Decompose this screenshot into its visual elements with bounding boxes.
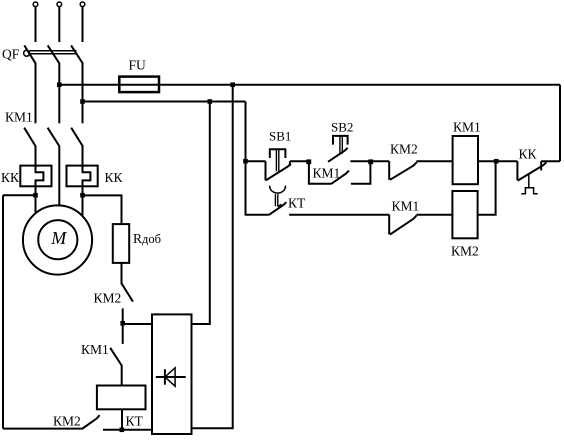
svg-text:КК: КК bbox=[105, 170, 124, 185]
svg-text:SB2: SB2 bbox=[331, 120, 353, 135]
contactor KM2 bottom contact bbox=[82, 415, 100, 429]
node motor terminal C bbox=[80, 193, 85, 198]
wire rectifier AC drop 1 bbox=[192, 102, 210, 325]
svg-text:КК: КК bbox=[519, 147, 538, 162]
contact KK thermal (NC) bbox=[517, 161, 546, 194]
motor M rotor circle bbox=[38, 220, 77, 259]
svg-text:КМ1: КМ1 bbox=[392, 199, 420, 214]
wire control neutral horizontal bbox=[83, 101, 246, 103]
wire to left edge bbox=[3, 194, 36, 196]
node motor terminal A bbox=[33, 193, 38, 198]
contact KM1 self-holding bbox=[309, 161, 371, 184]
thermal overload KK heater 1 bbox=[20, 166, 51, 187]
wire row2 to KM2 coil bbox=[416, 214, 452, 216]
resistor Rdob bbox=[113, 224, 129, 263]
coil KM2 bbox=[452, 191, 477, 238]
svg-text:КК: КК bbox=[1, 170, 20, 185]
wire KM2 interlock to KM1 coil bbox=[416, 160, 452, 162]
node fuse tap on phase B bbox=[57, 82, 62, 87]
wire phase B lower bbox=[58, 146, 60, 205]
wire SB2 right bbox=[350, 160, 389, 162]
node rectifier DC minus bbox=[120, 428, 125, 433]
node SB2 branch left bbox=[306, 159, 311, 164]
thermal overload KK heater 2 bbox=[67, 166, 98, 187]
svg-text:КМ1: КМ1 bbox=[5, 110, 33, 125]
wire phase C lower bbox=[82, 146, 84, 165]
svg-text:КМ1: КМ1 bbox=[313, 166, 341, 181]
contactor KM2 brake contact bbox=[122, 284, 133, 302]
contactor KM1 aux contact (brake circuit) bbox=[110, 348, 122, 366]
wire phase B mid bbox=[58, 64, 60, 124]
terminal L3 bbox=[80, 2, 85, 7]
svg-text:M: M bbox=[50, 228, 67, 248]
wire row2 middle bbox=[289, 214, 389, 216]
svg-text:КМ2: КМ2 bbox=[390, 142, 418, 157]
contactor KM1 main contact pole 1 bbox=[24, 128, 36, 147]
svg-text:КТ: КТ bbox=[288, 196, 306, 211]
svg-text:КМ1: КМ1 bbox=[81, 342, 109, 357]
contact KM2 interlock (NC) bbox=[389, 161, 417, 180]
svg-text:SB1: SB1 bbox=[269, 129, 291, 144]
contact KT time-delay bbox=[269, 186, 286, 215]
wire junction to rectifier left top bbox=[123, 323, 152, 325]
wire phase C mid bbox=[82, 64, 84, 124]
wire brake contact to junction bbox=[122, 308, 124, 344]
wire phase B upper bbox=[58, 7, 60, 42]
terminal L2 bbox=[57, 2, 62, 7]
wire to fuse bbox=[59, 84, 560, 86]
node rectifier AC tap 1 bbox=[208, 99, 213, 104]
node rectifier AC tap 2 bbox=[230, 82, 235, 87]
node coil output bbox=[494, 159, 499, 164]
node control rail / row1 bbox=[243, 159, 248, 164]
wire phase A upper bbox=[35, 7, 37, 42]
svg-text:КМ2: КМ2 bbox=[94, 291, 122, 306]
wire left edge vertical bbox=[2, 195, 4, 428]
wire left control rail bbox=[245, 102, 247, 216]
wire phase A lower bbox=[35, 146, 37, 165]
wire heater2 to motor bbox=[82, 186, 84, 216]
wire rectifier AC drop 2 bbox=[192, 85, 233, 429]
circuit breaker QF bbox=[24, 45, 83, 63]
rectifier block bbox=[152, 314, 192, 434]
wire KM1 contact to KT coil bbox=[121, 366, 123, 386]
node SB2 branch right bbox=[368, 159, 373, 164]
motor M stator circle bbox=[23, 205, 92, 274]
node rectifier DC plus bbox=[120, 321, 125, 326]
wire bottom node to rectifier left bottom bbox=[103, 429, 152, 431]
wire right edge to KK contact bbox=[541, 160, 560, 162]
contactor KM1 main contact pole 3 bbox=[71, 128, 83, 147]
wire motor C to resistor bbox=[83, 195, 122, 224]
wire KM1 coil to node bbox=[478, 160, 517, 162]
svg-text:QF: QF bbox=[2, 46, 20, 61]
wire bottom left bbox=[3, 428, 82, 430]
pushbutton SB1 (NC stop) bbox=[266, 149, 291, 180]
fuse FU bbox=[119, 77, 159, 93]
pushbutton SB2 (NO start) bbox=[328, 136, 348, 162]
wire phase C upper bbox=[82, 7, 84, 42]
svg-text:FU: FU bbox=[129, 58, 147, 73]
contact KM1 aux (row2) bbox=[389, 215, 416, 235]
node control tap on phase C bbox=[80, 99, 85, 104]
wire resistor to KM2 brake contact bbox=[121, 263, 123, 284]
contactor KM1 main contact pole 2 bbox=[48, 128, 60, 147]
wire KT coil to bottom node bbox=[121, 409, 123, 431]
svg-text:КМ2: КМ2 bbox=[451, 244, 479, 259]
wire right edge down bbox=[559, 85, 561, 162]
coil KM1 bbox=[453, 136, 478, 184]
svg-text:КМ1: КМ1 bbox=[453, 120, 481, 135]
diode VD bbox=[156, 368, 186, 386]
terminal L1 bbox=[33, 2, 38, 7]
svg-text:Rдоб: Rдоб bbox=[133, 231, 161, 246]
svg-text:КТ: КТ bbox=[126, 414, 144, 429]
wire heater1 to motor bbox=[35, 186, 37, 212]
time relay coil KT bbox=[97, 386, 146, 410]
svg-text:КМ2: КМ2 bbox=[53, 414, 81, 429]
wire SB1 to node bbox=[290, 160, 309, 162]
wire KM2 coil up to node bbox=[478, 161, 496, 215]
wire row2 left bbox=[246, 214, 269, 216]
wire phase A mid bbox=[35, 64, 37, 124]
wire rail to SB1 bbox=[246, 160, 266, 162]
